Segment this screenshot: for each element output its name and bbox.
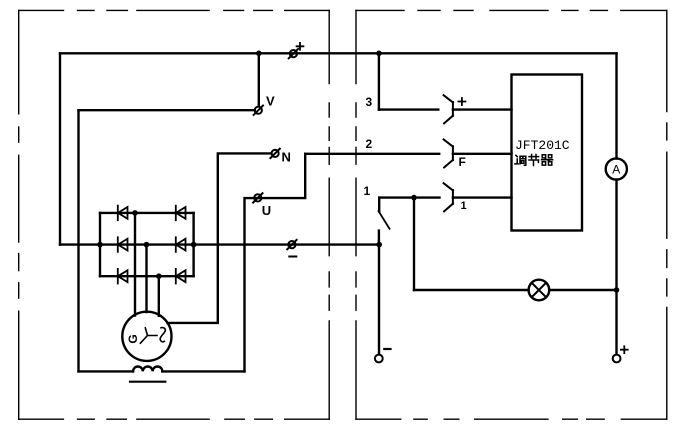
svg-text:N: N (282, 150, 291, 165)
diode D3 mid-left (118, 237, 128, 252)
wire: generator bottom field winding line (79, 370, 134, 372)
node dot top row phase tap (132, 210, 138, 216)
wire: phase c vertical to generator (158, 276, 160, 316)
wire: N segment from generator star point (168, 153, 272, 323)
label regulator chinese: 器 (542, 155, 553, 165)
svg-text:U: U (262, 203, 271, 218)
connector + (plug circle with slash) (289, 49, 298, 58)
wire: phase b vertical to generator (145, 245, 147, 313)
wire: contact1 to regulator (453, 196, 512, 198)
wire: lamp wire left (414, 289, 529, 291)
svg-text:JFT201C: JFT201C (515, 138, 570, 153)
left enclosure dashed border top (19, 9, 330, 11)
svg-text:1: 1 (461, 200, 467, 212)
rectifier bridge left bus (99, 213, 101, 276)
bridge top row wire (100, 212, 194, 214)
lamp indicator circle with cross (529, 280, 550, 301)
node dot bridge mid-left bus (97, 242, 103, 248)
plug contact 2 (444, 139, 453, 167)
label - at output (384, 348, 390, 350)
left enclosure dashed border right (328, 10, 330, 419)
wire: lamp branch vertical from terminal1 node (413, 198, 415, 290)
svg-text:1: 1 (364, 184, 371, 198)
ammeter A circle (606, 158, 627, 179)
svg-text:F: F (459, 155, 466, 169)
wire: contact2 to regulator (453, 153, 512, 155)
svg-text:A: A (612, 163, 620, 177)
diode D4 mid-right (176, 237, 186, 252)
regulator box JFT201C (512, 75, 583, 231)
connector V (plug circle with slash) (254, 106, 263, 115)
wire: vertical from + bus to terminal 3 (378, 53, 380, 109)
plug contact 3 (444, 95, 453, 123)
wire: V horizontal (79, 109, 255, 111)
wire: contact3 to regulator (453, 108, 512, 110)
wire: phase a vertical to generator (134, 213, 136, 316)
node dot lamp to + branch (614, 287, 620, 293)
wire: ammeter down to lamp node (615, 180, 617, 290)
left enclosure dashed border bottom (19, 418, 330, 420)
label + at contact 3 (458, 98, 465, 105)
terminal output minus circle (375, 355, 383, 363)
inductor field winding coil (133, 367, 162, 372)
diode D6 bottom-right (176, 269, 186, 284)
node dot top bus to terminal 3 branch (376, 51, 382, 57)
connector U (plug circle with slash) (253, 193, 262, 202)
wire: left vertical from + bus down to - bus (59, 53, 61, 244)
core bar under coil (130, 381, 165, 383)
wire: V vertical down left side (77, 110, 79, 371)
node dot - bus to output branch (376, 242, 382, 248)
bridge bottom row wire (100, 275, 194, 277)
diode D1 top-left (118, 206, 128, 221)
svg-text:3: 3 (366, 95, 373, 109)
switch S upper stub (378, 198, 380, 212)
connector - (plug circle with slash) (287, 240, 296, 249)
wire: + output vertical (615, 290, 617, 355)
node dot on terminal 1 wire (411, 195, 417, 201)
switch S lower stub (378, 231, 380, 245)
svg-text:V: V (266, 94, 275, 109)
wire: top bus corner down to ammeter (615, 53, 617, 158)
label - of connector (289, 256, 296, 258)
label + at output (621, 346, 628, 353)
node dot bottom row phase tap (156, 273, 162, 279)
terminal output plus circle (613, 355, 621, 363)
node junction on + bus at V branch (256, 51, 262, 57)
svg-text:G: G (126, 334, 140, 343)
right enclosure dashed border right (666, 10, 668, 419)
node dot bridge mid-right bus (191, 242, 197, 248)
node dot mid row phase tap (144, 242, 150, 248)
wire: lamp wire right (549, 289, 616, 291)
generator tilde symbol (rotated) (160, 328, 165, 342)
label regulator chinese: 节 (529, 155, 539, 166)
wire: + bus from left box top across to right box (60, 52, 617, 54)
generator G circle (122, 312, 171, 361)
generator star symbol (140, 328, 157, 343)
wire: terminal 1 horizontal (379, 196, 439, 198)
left enclosure dashed border left (18, 10, 20, 419)
wire: 2/F wire from U corner across to right box (305, 153, 439, 155)
label + of connector (297, 43, 304, 50)
switch S blade (379, 211, 390, 229)
plug contact 1 (444, 183, 453, 211)
wire: - bus across both boxes (60, 243, 379, 245)
wire: output minus vertical (378, 245, 380, 355)
wire: V branch vertical down to connector V (258, 53, 260, 106)
right enclosure dashed border bottom (356, 418, 667, 420)
diode D2 top-right (176, 206, 186, 221)
rectifier bridge right bus (192, 213, 194, 276)
connector N (plug circle with slash) (270, 149, 279, 158)
svg-text:2: 2 (366, 137, 373, 151)
right enclosure dashed border left (355, 10, 357, 419)
right enclosure dashed border top (356, 9, 667, 11)
label regulator chinese: 调 (515, 155, 526, 165)
wire: right vertical up from field wire to U wire (245, 154, 306, 372)
diode D5 bottom-left (118, 269, 128, 284)
wire: terminal 3 horizontal (379, 108, 438, 110)
